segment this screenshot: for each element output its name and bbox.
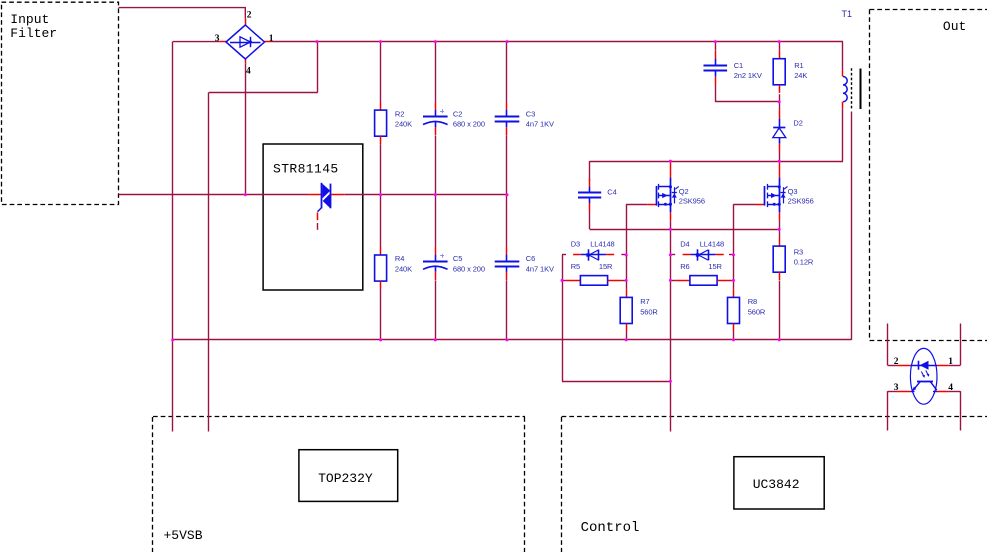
wire opto pin4 hook [960,391,962,430]
diode D3 [581,254,606,256]
optocoupler U2 [910,348,937,404]
wire D3 row right stub [621,254,626,256]
wire Q2 gate column [626,204,628,289]
svg-text:R8: R8 [748,297,757,306]
svg-text:2: 2 [894,357,899,367]
svg-text:240K: 240K [395,264,412,273]
wire R2-R4 column middle [380,144,382,247]
wire second column down to +5VSB [208,92,210,431]
svg-text:Q2: Q2 [679,187,689,196]
resistor R8 [733,289,735,297]
IC U1 STR81145 (box) [263,144,363,290]
svg-text:4: 4 [246,67,251,77]
wire riser to top rail [317,42,319,93]
svg-text:T1: T1 [842,9,853,19]
wire Q3 gate link [734,204,757,206]
svg-text:Q3: Q3 [788,187,798,196]
resistor R3 [779,238,781,246]
svg-text:15R: 15R [599,262,613,271]
wire opto pin1 hook [960,324,962,366]
svg-text:560R: 560R [748,307,766,316]
wire D2 to mid-right rail [779,152,781,161]
wire pin4 jog horizontal [209,92,318,94]
svg-text:2n2 1KV: 2n2 1KV [734,71,762,80]
svg-text:R5: R5 [571,262,580,271]
Input Filter block (dashed box) [2,2,119,204]
svg-text:D3: D3 [571,240,580,249]
svg-text:2SK956: 2SK956 [679,197,705,206]
svg-text:Out: Out [943,19,966,34]
resistor R4 [380,247,382,255]
wire gate return link [562,381,670,383]
svg-text:1: 1 [269,34,274,44]
svg-text:560R: 560R [640,307,658,316]
svg-text:D2: D2 [793,118,802,127]
IC UC3842 (box) [734,457,824,509]
wire input filter to bridge pin2 [119,8,246,19]
wire source bus [590,229,780,231]
svg-text:0.12R: 0.12R [794,258,814,267]
svg-text:+5VSB: +5VSB [164,528,203,543]
wire transformer top link [842,42,844,71]
wire bridge pin3 to left column [173,41,220,43]
capacitor C5 [435,247,437,255]
svg-text:C2: C2 [453,109,462,118]
wire D4 row right stub [729,254,734,256]
svg-text:2SK956: 2SK956 [788,197,814,206]
diode D4 [690,254,715,256]
wire C1 to R1 link [715,101,779,103]
wire R3 to bottom rail [779,281,781,340]
wire R8 to bottom rail [733,332,735,340]
svg-text:680 x 200: 680 x 200 [453,120,485,129]
svg-text:STR81145: STR81145 [273,162,339,177]
svg-text:2: 2 [247,11,252,21]
wire left column down to +5VSB [172,42,174,432]
resistor R5 [566,280,581,282]
svg-text:R6: R6 [680,262,689,271]
junction dots [315,40,318,43]
wire top rail [271,41,843,43]
thyristor inside STR81145 [309,194,321,196]
svg-text:4n7 1KV: 4n7 1KV [526,264,554,273]
capacitor C1 [715,51,717,59]
capacitor C6 [506,247,508,255]
IC TOP232Y (box) [299,450,398,502]
Out block (dashed box) [870,9,987,11]
svg-text:3: 3 [215,34,220,44]
wire R5 row left stub [562,280,566,282]
wire C2 column upper [435,42,437,103]
svg-text:Filter: Filter [10,26,57,41]
wire Q2 gate link [626,204,647,206]
svg-text:1: 1 [948,357,953,367]
svg-text:R2: R2 [395,109,404,118]
svg-text:C4: C4 [607,187,616,196]
svg-text:680 x 200: 680 x 200 [453,264,485,273]
wire Q3 source to R3 [779,221,781,238]
svg-text:4: 4 [948,383,953,393]
bridge rectifier D1 [245,18,247,25]
wire R2 column upper [380,42,382,102]
wire mid rail right [345,194,507,196]
svg-text:D4: D4 [680,240,689,249]
svg-text:240K: 240K [395,120,412,129]
wire mid-right rail [590,161,843,163]
capacitor C2 [435,102,437,110]
svg-text:3: 3 [894,383,899,393]
capacitor C4 [589,179,591,187]
wire C1 column bottom [715,85,717,102]
wire opto pin3 hook [887,391,889,430]
wire R6 row left stub [670,280,675,282]
wire C4 bottom drop [589,211,591,229]
transformer T1 [842,70,844,76]
svg-text:Control: Control [581,520,640,536]
wire transformer bottom link [842,108,844,161]
resistor R2 [380,102,382,110]
Control block (dashed box) [561,417,563,552]
wire R6 row right stub [731,280,733,282]
wire D3 R5 left column [562,255,564,381]
svg-text:R7: R7 [640,297,649,306]
wire C3-C6 column middle [506,136,508,247]
svg-text:R4: R4 [395,254,404,263]
wire C5 column lower [435,280,437,340]
wire R5 row right stub [622,280,627,282]
diode D2 [779,110,781,118]
svg-text:Input: Input [10,12,49,27]
svg-text:R3: R3 [794,247,803,256]
capacitor C3 [506,102,508,110]
wire secondary down [851,112,853,340]
wire C4 top drop [589,161,591,180]
MOSFET Q2 [670,162,672,178]
svg-text:LL4148: LL4148 [590,240,614,249]
wire R1 column top [779,42,781,51]
wire D3 row left stub [562,254,566,256]
wire bottom rail [173,339,852,341]
wire R7 to bottom rail [626,332,628,340]
svg-text:C6: C6 [526,254,535,263]
svg-text:4n7 1KV: 4n7 1KV [526,120,554,129]
wire R1 to D2 [779,94,781,110]
MOSFET Q3 [779,162,781,178]
svg-text:LL4148: LL4148 [700,240,724,249]
wire R4 column lower [380,289,382,340]
svg-text:UC3842: UC3842 [753,477,800,492]
resistor R1 [779,51,781,59]
wire D4 row left stub [670,254,675,256]
svg-text:C5: C5 [453,254,462,263]
wire C3 column upper [506,42,508,103]
svg-text:15R: 15R [708,262,722,271]
svg-text:C3: C3 [526,109,535,118]
svg-text:TOP232Y: TOP232Y [318,471,373,486]
svg-text:24K: 24K [794,71,807,80]
wire C2-C5 column middle [435,136,437,247]
resistor R7 [626,289,628,297]
wire C1 column top [715,42,717,51]
wire C6 column lower [506,280,508,340]
wire mid rail left [119,194,309,196]
wire opto pin2 hook [887,324,889,366]
wire Q2 source column [670,221,672,432]
wire Q3 gate column [733,204,735,289]
svg-text:C1: C1 [734,61,743,70]
wire bridge pin4 down [245,63,247,195]
+5VSB block (dashed box) [152,417,154,552]
svg-text:R1: R1 [794,61,803,70]
resistor R6 [675,280,690,282]
